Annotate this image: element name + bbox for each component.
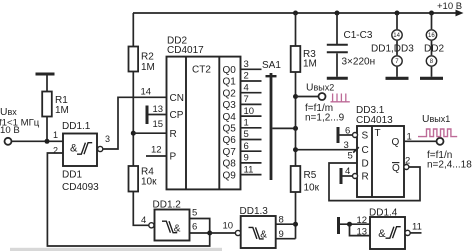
ground S pin6 bar — [337, 127, 340, 143]
svg-text:10к: 10к — [141, 177, 157, 188]
DD3.1 divider — [371, 126, 373, 197]
wire Q6 pin5 stub — [241, 139, 262, 141]
wire DD1.4 pin11 stub — [410, 232, 421, 234]
svg-text:R5: R5 — [304, 170, 317, 181]
DD1.3 output bubble pin10 — [235, 230, 240, 235]
svg-text:Q4: Q4 — [223, 112, 237, 123]
svg-text:Uвых1: Uвых1 — [422, 114, 450, 125]
svg-text:12: 12 — [151, 145, 162, 156]
svg-text:7: 7 — [244, 94, 249, 105]
svg-text:11: 11 — [244, 164, 254, 175]
node input junction — [45, 139, 50, 144]
resistor R2 — [129, 47, 139, 72]
svg-text:Q: Q — [392, 163, 400, 174]
svg-text:4: 4 — [244, 82, 249, 93]
svg-text:5: 5 — [244, 129, 249, 140]
svg-text:11: 11 — [412, 222, 422, 233]
ground C1-C3 — [327, 77, 348, 80]
svg-text:Q7: Q7 — [223, 147, 237, 158]
wire to DD1.3 pin10 — [210, 232, 236, 234]
svg-text:CD4017: CD4017 — [167, 45, 204, 56]
wire R5 to DD1.3 inputs — [295, 192, 297, 239]
svg-text:2: 2 — [53, 145, 58, 155]
wire DD1.4 pin13 — [350, 224, 371, 235]
svg-text:Q9: Q9 — [223, 170, 237, 181]
svg-text:DD2: DD2 — [424, 44, 444, 55]
pin 8 circle DD2 — [426, 56, 436, 66]
wire pin16 to pin8 — [431, 41, 433, 55]
switch SA1 handle — [266, 75, 277, 77]
svg-text:3: 3 — [105, 134, 110, 144]
svg-text:Q: Q — [392, 137, 400, 148]
svg-text:DD1.2: DD1.2 — [153, 200, 182, 211]
terminal Uvyh2 — [319, 93, 326, 100]
node rail R3 — [293, 11, 298, 16]
ground (top left bar) — [36, 73, 55, 76]
svg-text:&: & — [174, 224, 181, 235]
node DD1.2 input junction — [207, 231, 212, 236]
svg-text:R: R — [362, 172, 369, 183]
svg-text:10 В: 10 В — [0, 125, 20, 136]
svg-text:Q0: Q0 — [223, 65, 237, 76]
waveform Uvyh2 pulses — [331, 94, 350, 102]
bubble Q-bar output pin2 — [404, 165, 409, 170]
wire pin14 to pin7 — [396, 41, 398, 55]
wire rail to R3 — [295, 13, 297, 46]
flip-flop DD3.1 box — [357, 126, 404, 197]
svg-text:Q2: Q2 — [223, 88, 237, 99]
DD1.2 output bubble pin4 — [149, 223, 154, 228]
wire Q2 pin4 stub — [241, 92, 262, 94]
svg-text:P: P — [170, 152, 177, 163]
svg-text:D: D — [362, 159, 369, 170]
svg-text:12: 12 — [357, 215, 368, 226]
svg-text:3: 3 — [344, 140, 349, 151]
svg-text:10: 10 — [223, 221, 234, 232]
svg-text:9: 9 — [244, 153, 249, 164]
svg-text:n=2,4...18: n=2,4...18 — [427, 160, 472, 171]
node DD1.3 input junction — [293, 222, 298, 227]
wire rail to pin14 circle — [396, 13, 398, 29]
wire R3 to R5 — [295, 72, 297, 166]
DD1.2 gate symbol — [162, 221, 177, 233]
wire C1-C3 to ground — [336, 53, 338, 77]
pin 14 circle DD1,DD3 — [392, 30, 402, 40]
node rail DD2 power — [429, 11, 434, 16]
bubble S input — [353, 133, 358, 138]
svg-text:10к: 10к — [304, 183, 320, 194]
svg-text:&: & — [70, 143, 78, 155]
ground DD2 — [420, 77, 443, 80]
svg-text:C: C — [362, 145, 369, 156]
wire rail to pin16 circle — [431, 13, 433, 29]
wire C pin3 — [296, 149, 358, 151]
svg-text:8: 8 — [279, 215, 284, 226]
svg-text:n=1,2...9: n=1,2...9 — [305, 113, 345, 124]
svg-text:&: & — [378, 228, 386, 240]
wire DD1.3 pin9 — [276, 238, 296, 240]
dynamic tick C input — [353, 147, 359, 152]
wire Q4 pin10 stub — [241, 115, 262, 117]
terminal Uvyh1 — [437, 138, 444, 145]
ground DD1.4 bar — [337, 217, 340, 234]
svg-text:1: 1 — [53, 130, 58, 140]
wire R4 to DD1.2 pin4 — [133, 192, 148, 226]
+10V arrow — [456, 10, 464, 17]
wire input to DD1.1 pin1 — [12, 140, 64, 142]
bubble R input — [353, 174, 358, 179]
resistor R4 — [129, 166, 139, 192]
op-amp DD1.1 box — [63, 134, 97, 167]
wire P pin12 stub — [146, 155, 167, 157]
wire Q1 pin2 stub — [241, 80, 262, 82]
wire rail to R2 — [132, 13, 134, 47]
wire pin3 to CN pin14 — [103, 97, 167, 149]
svg-text:Uвых2: Uвых2 — [306, 83, 334, 94]
svg-text:DD1.3: DD1.3 — [240, 206, 269, 217]
svg-text:1M: 1M — [55, 105, 69, 116]
ground CP pin13 bar — [146, 106, 149, 125]
switch SA1 bar — [270, 73, 273, 180]
DD1.1 output bubble pin3 — [98, 146, 103, 151]
DD1.3 gate symbol — [249, 227, 264, 239]
wire DD1.3 pin8 — [276, 223, 296, 225]
svg-text:SA1: SA1 — [262, 60, 281, 71]
svg-text:CP: CP — [170, 110, 184, 121]
ground DD1,DD3 — [386, 77, 409, 80]
svg-text:CD4093: CD4093 — [62, 182, 99, 193]
node rail DD1,DD3 power — [395, 11, 400, 16]
node rail C1-C3 — [335, 11, 340, 16]
svg-text:6: 6 — [244, 141, 249, 152]
wire DD1.2 pin6 — [190, 232, 210, 234]
svg-text:DD1.1: DD1.1 — [62, 121, 91, 132]
svg-text:DD1: DD1 — [62, 170, 82, 181]
svg-text:3×220н: 3×220н — [342, 57, 376, 68]
wire pin7 to ground — [396, 67, 398, 77]
wire bar to R1 — [46, 76, 48, 92]
wire R pin15 — [133, 132, 166, 134]
svg-text:6: 6 — [192, 222, 197, 233]
wire DD1.2 pin5 — [190, 219, 210, 234]
node wiper junction — [293, 126, 298, 131]
svg-text:Q5: Q5 — [223, 124, 237, 135]
resistor R1 — [42, 92, 52, 117]
wire D pin5 feedback — [329, 163, 420, 201]
svg-text:Q6: Q6 — [223, 135, 237, 146]
wire DD1.1 pin2 feedback — [47, 153, 209, 246]
svg-text:+10 В: +10 В — [437, 1, 462, 12]
svg-text:S: S — [362, 131, 369, 142]
svg-text:3: 3 — [244, 59, 249, 70]
svg-text:5: 5 — [348, 151, 353, 162]
wire pin8 to ground — [431, 67, 433, 77]
svg-text:CT2: CT2 — [192, 65, 211, 76]
wire SA1 wiper — [272, 127, 295, 129]
DD2 divider left — [185, 57, 187, 190]
pin 16 circle DD2 — [426, 30, 436, 40]
svg-text:C1-C3: C1-C3 — [344, 30, 373, 41]
counter DD2 box — [167, 57, 241, 190]
svg-text:R2: R2 — [141, 52, 154, 63]
gray strip bottom — [10, 248, 222, 251]
node C input junction — [293, 147, 298, 152]
svg-text:5: 5 — [192, 208, 197, 219]
svg-text:13: 13 — [357, 226, 368, 237]
svg-text:10: 10 — [244, 106, 255, 117]
svg-text:1: 1 — [407, 132, 412, 143]
node R input junction — [131, 131, 136, 136]
svg-text:1M: 1M — [141, 62, 155, 73]
wire Q7 pin6 stub — [241, 150, 262, 152]
+10V rail — [133, 12, 457, 14]
gate DD1.4 box — [370, 217, 405, 249]
pin 7 circle DD1,DD3 — [392, 56, 402, 66]
node Uvyh2 junction — [293, 94, 298, 99]
resistor R5 — [291, 166, 301, 192]
capacitor C1-C3 — [327, 45, 348, 53]
wire CP pin13 — [149, 114, 167, 116]
svg-text:1: 1 — [244, 118, 249, 129]
wire R1 to input node — [46, 117, 48, 142]
wire Q0 pin3 stub — [241, 68, 262, 70]
waveform Uvyh1 square wave — [418, 129, 457, 137]
svg-text:Q3: Q3 — [223, 100, 237, 111]
svg-text:14: 14 — [141, 87, 152, 98]
svg-text:9: 9 — [279, 229, 284, 240]
svg-text:16: 16 — [428, 33, 435, 39]
wire S pin6 — [340, 134, 353, 136]
wire Q3 pin7 stub — [241, 103, 262, 105]
svg-text:DD1.4: DD1.4 — [369, 208, 398, 219]
wire Q pin1 to terminal — [404, 140, 437, 142]
svg-text:R: R — [170, 129, 177, 140]
svg-text:1M: 1M — [303, 59, 317, 70]
svg-text:CD4013: CD4013 — [356, 115, 393, 126]
svg-text:2: 2 — [405, 156, 410, 167]
wire DD1.4 pin12 — [340, 223, 370, 225]
resistor R3 — [291, 46, 301, 72]
svg-text:&: & — [260, 229, 267, 240]
wire Q8 pin9 stub — [241, 162, 262, 164]
wire Uvyh2 terminal — [296, 96, 319, 98]
svg-text:CN: CN — [170, 93, 184, 104]
wire R pin4 — [343, 175, 353, 177]
wire R2 to R4 — [132, 72, 134, 167]
svg-text:DD1,DD3: DD1,DD3 — [371, 44, 414, 55]
wire Q5 pin1 stub — [241, 127, 262, 129]
svg-text:T: T — [375, 128, 381, 139]
terminal Uvx — [5, 138, 12, 145]
node DD1.4 input junction — [347, 222, 352, 227]
svg-text:15: 15 — [153, 119, 164, 130]
svg-text:13: 13 — [153, 104, 164, 115]
DD1.4 output bubble pin11 — [405, 230, 410, 235]
svg-text:14: 14 — [393, 33, 400, 39]
svg-text:6: 6 — [345, 126, 350, 137]
svg-text:Q1: Q1 — [223, 77, 237, 88]
wire Q9 pin11 stub — [241, 174, 262, 176]
gate DD1.2 box — [155, 210, 190, 241]
ground R pin4 bar — [340, 168, 343, 184]
svg-text:2: 2 — [244, 71, 249, 82]
svg-text:4: 4 — [141, 215, 146, 226]
svg-text:Q8: Q8 — [223, 159, 237, 170]
DD2 divider right — [218, 57, 220, 190]
svg-text:4: 4 — [345, 166, 350, 177]
wire rail to C1-C3 — [336, 13, 338, 44]
gate DD1.3 box — [241, 216, 276, 248]
